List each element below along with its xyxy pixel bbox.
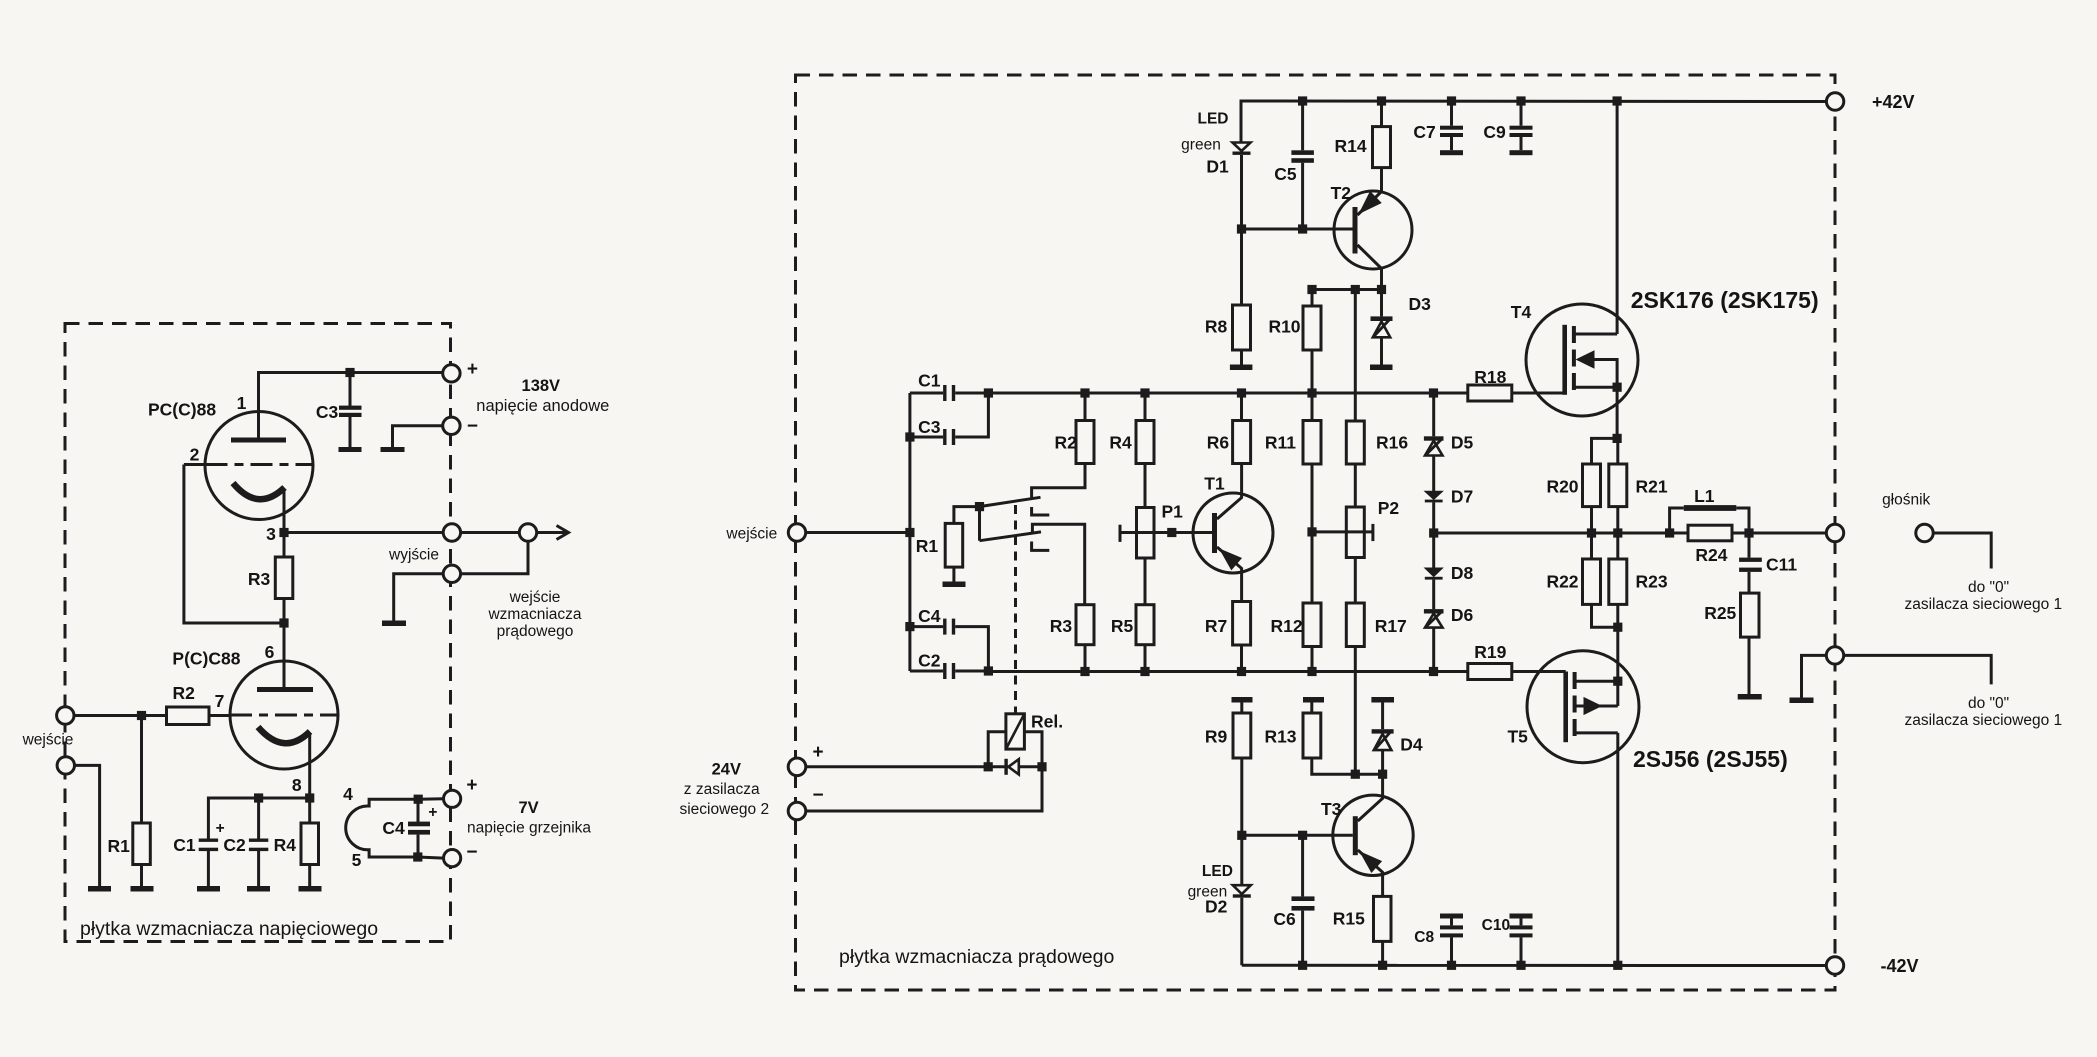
- transistor T2 collector diagonal: [1358, 245, 1382, 290]
- wire C7 lead 2: [1450, 137, 1453, 150]
- svg-text:R23: R23: [1636, 572, 1668, 592]
- svg-text:wejście: wejście: [725, 526, 777, 543]
- svg-text:5: 5: [352, 850, 362, 870]
- wire D2 bottom lead: [1240, 898, 1243, 966]
- capacitor C10 plate 2: [1510, 933, 1533, 937]
- wire upper bus to T4 gate: [1512, 392, 1565, 395]
- ground R4 left: [299, 886, 322, 892]
- relay actuator dashed link: [1014, 505, 1017, 714]
- svg-text:C3: C3: [918, 417, 941, 437]
- wire R8 top lead: [1240, 229, 1243, 305]
- wire T3 base: [1242, 834, 1353, 837]
- wire input to R2: [74, 714, 167, 717]
- wire R15 bottom lead: [1381, 941, 1384, 965]
- relay contact arm 1: [980, 497, 1041, 506]
- wire C4 left lead: [910, 625, 943, 628]
- node T4 source: [1613, 383, 1622, 392]
- diode D3 zener stroke: [1374, 320, 1390, 337]
- transistor T5 source connection: [1575, 680, 1618, 683]
- node input junction: [905, 528, 914, 537]
- ground R1 left: [131, 886, 154, 892]
- ground return: [382, 621, 406, 627]
- capacitor C3r plate 2: [952, 429, 955, 445]
- wire C8 lead: [1450, 919, 1453, 966]
- svg-text:R7: R7: [1205, 616, 1227, 636]
- svg-text:D5: D5: [1451, 433, 1474, 453]
- node R2 bus: [1080, 388, 1089, 397]
- resistor R5: [1136, 605, 1154, 645]
- wire do0 ground: [1802, 655, 1827, 698]
- wire R3 bottom: [1084, 645, 1087, 672]
- wire D8-D6: [1432, 580, 1435, 610]
- potentiometer P2 wiper bar: [1371, 524, 1374, 541]
- wire C9 lead 2: [1520, 137, 1523, 150]
- relay coil diagonal: [1006, 714, 1025, 749]
- svg-text:C3: C3: [316, 402, 339, 422]
- wire R3 top lead: [283, 533, 286, 558]
- capacitor C10 plate 1: [1510, 925, 1533, 929]
- svg-text:R4: R4: [274, 835, 297, 855]
- heater bracket pins 4-5: [346, 799, 419, 857]
- svg-text:C4: C4: [382, 818, 405, 838]
- svg-text:do "0": do "0": [1968, 695, 2009, 712]
- svg-text:R6: R6: [1207, 433, 1230, 453]
- capacitor C2 plate 1 (tube board): [249, 839, 268, 842]
- svg-text:zasilacza sieciowego 1: zasilacza sieciowego 1: [1904, 596, 2062, 613]
- node T5 source: [1613, 677, 1622, 686]
- wire pivot to arm 2: [978, 507, 981, 541]
- transistor T3 collector diagonal: [1358, 774, 1383, 821]
- node L1 right / C11: [1744, 528, 1753, 537]
- node R3 / V2 anode: [279, 618, 288, 627]
- node V1 anode / C3: [345, 368, 354, 377]
- terminal +42V: [1826, 93, 1843, 110]
- node R7 bus: [1237, 667, 1246, 676]
- wire contact 2 to R3: [1032, 524, 1084, 604]
- resistor R13: [1303, 713, 1321, 758]
- node C5 base wire: [1298, 224, 1307, 233]
- svg-text:−: −: [812, 785, 823, 806]
- wire R4 lead: [308, 798, 311, 823]
- wire lower bus to T5 gate: [1512, 670, 1566, 673]
- diode D5 zener stroke: [1426, 439, 1442, 455]
- wire T5 source up: [1616, 627, 1619, 681]
- resistor R1 (current board): [945, 523, 963, 567]
- diode D6 triangle: [1425, 614, 1443, 628]
- svg-text:R15: R15: [1333, 909, 1365, 929]
- wire C1 to ground: [207, 851, 210, 887]
- resistor R16: [1346, 421, 1364, 464]
- wire R1 column: [140, 716, 143, 824]
- resistor R25: [1741, 593, 1760, 637]
- wire input chain vertical: [908, 393, 911, 671]
- node diode chain output: [1429, 528, 1438, 537]
- wire C6 lead top: [1301, 835, 1304, 896]
- wire R20 bottom lead: [1590, 507, 1593, 533]
- svg-text:7: 7: [215, 691, 225, 711]
- transistor T4 channel bar dashed: [1572, 326, 1576, 396]
- LED D1 cathode bar: [1233, 152, 1251, 155]
- wire D5 top lead: [1432, 393, 1435, 436]
- node T2 collector / D3: [1377, 285, 1386, 294]
- svg-text:2SJ56 (2SJ55): 2SJ56 (2SJ55): [1633, 746, 1788, 772]
- capacitor C8 plate 1: [1440, 925, 1463, 929]
- svg-text:8: 8: [292, 775, 302, 795]
- wire C1 right lead: [955, 392, 988, 395]
- terminal 24V +: [788, 758, 806, 776]
- svg-text:R17: R17: [1375, 616, 1407, 636]
- wire V2 anode lead pin 6: [283, 623, 286, 688]
- wire upper bus: [988, 392, 1467, 395]
- svg-text:wzmacniacza: wzmacniacza: [487, 606, 581, 623]
- wire R6 top lead: [1240, 393, 1243, 421]
- wire R1 to ground: [140, 865, 143, 887]
- svg-text:R4: R4: [1109, 433, 1132, 453]
- wire C2 to ground: [257, 851, 260, 887]
- transistor T4 gate bar: [1562, 325, 1567, 395]
- svg-text:P(C)C88: P(C)C88: [172, 649, 240, 669]
- svg-text:+: +: [428, 804, 437, 821]
- wire do0 right: [1844, 655, 1992, 684]
- potentiometer P1 wiper bar: [1119, 525, 1122, 542]
- wire output/speaker line: [1434, 532, 1827, 535]
- wire node-D8: [1432, 533, 1435, 568]
- diode D6 zener stroke: [1426, 612, 1442, 628]
- svg-text:L1: L1: [1694, 486, 1715, 506]
- wire glosnik return: [1933, 533, 1991, 569]
- wire C5 top lead: [1301, 101, 1304, 150]
- svg-text:R10: R10: [1268, 317, 1300, 337]
- node heater minus: [413, 852, 422, 861]
- svg-text:R21: R21: [1636, 477, 1668, 497]
- node C2/C4 bus: [984, 666, 993, 675]
- capacitor C8 plate 2: [1440, 933, 1463, 937]
- node C10 rail: [1516, 961, 1525, 970]
- svg-text:+: +: [812, 742, 823, 763]
- wire C4 lead bottom: [417, 835, 420, 857]
- resistor R6: [1233, 421, 1251, 464]
- wire heater plus: [419, 797, 444, 800]
- svg-text:P1: P1: [1161, 502, 1183, 522]
- diode D4 zener bar: [1372, 729, 1394, 733]
- resistor R1 (tube board): [133, 823, 151, 865]
- svg-text:prądowego: prądowego: [497, 623, 574, 640]
- svg-text:R24: R24: [1695, 545, 1727, 565]
- LED D2 triangle: [1233, 885, 1251, 894]
- capacitor C4r plate 1: [943, 619, 946, 635]
- relay contact arm 2: [980, 532, 1042, 541]
- resistor R2 (current board): [1076, 421, 1094, 464]
- relay contact stub 1: [1032, 507, 1050, 515]
- node R5 bus: [1140, 667, 1149, 676]
- node R10 top corner: [1307, 285, 1316, 294]
- svg-text:4: 4: [343, 784, 353, 804]
- wire C4 lead top: [417, 799, 420, 822]
- wire 24V plus: [806, 765, 1042, 768]
- node R4 bus: [1140, 388, 1149, 397]
- relay flyback diode cathode bar: [1004, 759, 1007, 775]
- capacitor C2 plate 2 (tube board): [249, 848, 268, 851]
- terminal glosnik return: [1916, 524, 1933, 541]
- node C9 rail: [1516, 96, 1525, 105]
- svg-text:D8: D8: [1451, 563, 1474, 583]
- svg-text:R20: R20: [1546, 477, 1578, 497]
- diode D3 zener bar: [1371, 316, 1393, 321]
- wire input to chain: [806, 531, 910, 534]
- svg-text:R19: R19: [1474, 642, 1506, 662]
- svg-text:R18: R18: [1474, 367, 1506, 387]
- node C5 rail: [1298, 96, 1307, 105]
- resistor R2 (tube board): [167, 707, 210, 725]
- capacitor C5 plate 2: [1291, 158, 1314, 163]
- diode D5 zener bar: [1424, 436, 1444, 440]
- terminal heater +: [444, 790, 461, 807]
- svg-text:T2: T2: [1331, 183, 1352, 203]
- tube V1 cathode arc: [233, 483, 285, 499]
- transistor T5 drain connection: [1575, 731, 1618, 734]
- wire R4-P1-R5 column: [1144, 393, 1147, 672]
- resistor R17: [1346, 603, 1364, 647]
- tube V1 grid dashes: [206, 463, 314, 466]
- svg-text:głośnik: głośnik: [1882, 492, 1930, 509]
- wire +42V rail: [1241, 101, 1826, 143]
- svg-text:napięcie anodowe: napięcie anodowe: [476, 397, 609, 415]
- svg-text:R5: R5: [1111, 616, 1134, 636]
- svg-text:zasilacza sieciowego 1: zasilacza sieciowego 1: [1904, 712, 2062, 729]
- svg-text:C11: C11: [1766, 555, 1797, 575]
- wire R23 leads: [1616, 533, 1619, 627]
- svg-text:płytka wzmacniacza napięcioweg: płytka wzmacniacza napięciowego: [80, 918, 378, 940]
- wire V1 grid pin 2 stub: [184, 463, 206, 466]
- wire C2 left lead: [910, 670, 943, 673]
- tube V1 PC(C)88 envelope: [205, 412, 313, 520]
- node C4 left: [905, 622, 914, 631]
- node R22/R23 bottom: [1613, 623, 1622, 632]
- wire R8 bottom lead: [1240, 350, 1243, 365]
- capacitor C11 plate 2: [1739, 568, 1762, 572]
- wire R25 to ground: [1748, 637, 1751, 694]
- node R3 bus: [1080, 667, 1089, 676]
- wire C3 lead top: [349, 373, 352, 407]
- svg-text:płytka wzmacniacza prądowego: płytka wzmacniacza prądowego: [839, 946, 1114, 968]
- node R21 output line: [1613, 528, 1622, 537]
- capacitor C1 plate 2 (tube board): [199, 848, 218, 851]
- resistor R19: [1468, 664, 1512, 680]
- svg-text:C10: C10: [1482, 917, 1510, 934]
- node C6 rail: [1298, 961, 1307, 970]
- svg-text:D1: D1: [1206, 157, 1229, 177]
- terminal wejscie (current board): [788, 524, 805, 541]
- resistor R10: [1303, 306, 1321, 350]
- transistor T5 body connection: [1575, 681, 1618, 706]
- capacitor C1 plate 1: [943, 385, 946, 401]
- wire T4 source down: [1616, 387, 1619, 438]
- resistor R22: [1583, 559, 1601, 604]
- wire R10/R16/D3 node: [1312, 290, 1382, 307]
- tube V1 anode plate: [231, 438, 286, 443]
- relay coil lead right: [1024, 732, 1042, 767]
- svg-text:R25: R25: [1704, 603, 1736, 623]
- capacitor C2r plate 1: [943, 663, 946, 679]
- svg-text:R9: R9: [1205, 727, 1228, 747]
- resistor R11: [1303, 421, 1321, 465]
- svg-text:green: green: [1181, 137, 1221, 154]
- capacitor C6 plate 2: [1292, 906, 1315, 911]
- wire C5 bottom lead: [1301, 163, 1304, 229]
- wire return terminal left to ground: [394, 574, 444, 621]
- terminal return from current amp: [443, 565, 460, 582]
- wire D3 bottom lead: [1380, 337, 1383, 364]
- wire feedback pin2: [184, 465, 284, 624]
- svg-text:D2: D2: [1205, 897, 1228, 917]
- svg-text:-42V: -42V: [1881, 956, 1919, 976]
- wire C6 lead bottom: [1301, 911, 1304, 966]
- wire R14 to T2 emitter: [1380, 168, 1383, 192]
- wire D2 top lead: [1240, 835, 1243, 885]
- svg-text:−: −: [467, 416, 478, 437]
- ground R25: [1738, 694, 1762, 700]
- wire R2 to grid pin 7: [209, 714, 230, 717]
- svg-text:wejście: wejście: [22, 732, 74, 749]
- svg-text:R3: R3: [1050, 616, 1073, 636]
- node R11 bus: [1307, 388, 1316, 397]
- terminal to current amp: [519, 524, 536, 541]
- current amplifier board dashed outline: [796, 75, 1836, 990]
- diode D4 zener stroke: [1375, 732, 1391, 750]
- svg-text:138V: 138V: [522, 377, 561, 395]
- wire R10 bottom lead: [1311, 350, 1314, 393]
- wire C4 right lead: [955, 627, 988, 671]
- transistor T1 emitter arrow: [1220, 549, 1241, 569]
- wire T2 base: [1242, 228, 1353, 231]
- svg-text:R11: R11: [1265, 433, 1296, 453]
- svg-text:LED: LED: [1198, 111, 1229, 128]
- svg-text:PC(C)88: PC(C)88: [148, 400, 216, 420]
- node C7 rail: [1447, 96, 1456, 105]
- transistor T4 envelope: [1526, 304, 1638, 416]
- ground C2 left: [247, 886, 270, 892]
- node R17/T3 line: [1351, 770, 1360, 779]
- inductor L1 loop: [1670, 508, 1749, 533]
- wire R11-R12 column: [1311, 393, 1314, 672]
- node heater plus: [414, 795, 423, 804]
- wire R7 bottom lead: [1240, 645, 1243, 672]
- svg-text:3: 3: [266, 524, 276, 544]
- terminal wyjscie: [443, 524, 460, 541]
- node T5 drain rail: [1613, 961, 1622, 970]
- wire D7-node: [1432, 502, 1435, 533]
- node R12 bus: [1307, 667, 1316, 676]
- diode D7 bar: [1425, 500, 1443, 503]
- node D4/T3 collector: [1378, 770, 1387, 779]
- node C6 base: [1298, 831, 1307, 840]
- svg-text:Rel.: Rel.: [1031, 712, 1063, 732]
- terminator C7: [1440, 150, 1463, 155]
- svg-text:R3: R3: [248, 569, 271, 589]
- capacitor C1 plate 2: [952, 385, 955, 401]
- node T4 drain rail: [1613, 96, 1622, 105]
- terminal -138V: [443, 417, 460, 434]
- svg-text:C2: C2: [918, 651, 941, 671]
- node C8 rail: [1447, 961, 1456, 970]
- node R16 column top: [1351, 285, 1360, 294]
- ground C3: [339, 447, 362, 452]
- inductor L1 winding bar: [1684, 505, 1737, 511]
- ground anode minus: [381, 447, 405, 452]
- svg-text:R16: R16: [1376, 433, 1408, 453]
- svg-text:D3: D3: [1409, 294, 1432, 314]
- capacitor C9 plate 2: [1510, 133, 1533, 137]
- resistor R18: [1468, 385, 1512, 401]
- capacitor C5 plate 1: [1291, 150, 1314, 155]
- node L1 left: [1665, 528, 1674, 537]
- svg-text:P2: P2: [1378, 498, 1400, 518]
- svg-text:R22: R22: [1546, 572, 1578, 592]
- svg-text:T4: T4: [1511, 302, 1532, 322]
- ground do0: [1790, 698, 1814, 704]
- svg-text:2SK176 (2SK175): 2SK176 (2SK175): [1631, 287, 1819, 313]
- svg-text:sieciowego 2: sieciowego 2: [679, 801, 769, 818]
- node D5 bus: [1429, 388, 1438, 397]
- wire C10 lead: [1520, 919, 1523, 966]
- node R20/R21 top: [1613, 434, 1622, 443]
- transistor T2 envelope: [1334, 191, 1412, 269]
- transistor T2 emitter diagonal: [1358, 192, 1382, 216]
- node R20 output line: [1587, 528, 1596, 537]
- wire D4 top lead: [1381, 703, 1384, 730]
- wire C11 top lead: [1748, 533, 1751, 558]
- resistor R23: [1609, 559, 1627, 604]
- resistor R9: [1233, 713, 1251, 758]
- diode D4 triangle: [1374, 734, 1392, 750]
- transistor T5 envelope: [1527, 651, 1639, 763]
- transistor T2 emitter arrow: [1360, 192, 1381, 213]
- wire output node to wyjscie terminal: [284, 531, 443, 534]
- svg-text:6: 6: [265, 642, 275, 662]
- svg-text:24V: 24V: [712, 761, 741, 779]
- tube V2 grid dashes: [230, 714, 338, 717]
- svg-text:C7: C7: [1413, 122, 1435, 142]
- svg-text:+: +: [467, 359, 478, 380]
- node relay pivot: [975, 502, 984, 511]
- ground C1 left: [197, 886, 220, 892]
- svg-text:napięcie grzejnika: napięcie grzejnika: [467, 820, 591, 837]
- terminal glosnik: [1826, 524, 1843, 541]
- wire input2 to ground: [75, 765, 100, 886]
- terminator R8: [1230, 365, 1253, 371]
- potentiometer P1 body: [1137, 508, 1155, 559]
- capacitor C9 plate 1: [1510, 126, 1533, 130]
- voltage amplifier board dashed outline: [65, 324, 451, 942]
- wire R16-P2-R17 column: [1354, 290, 1357, 775]
- wire C3 lead bottom: [349, 417, 352, 448]
- wire C9 lead: [1520, 101, 1523, 126]
- capacitor C3r plate 1: [943, 429, 946, 445]
- wire output arrow: [537, 531, 567, 534]
- transistor T4 body arrow: [1577, 351, 1594, 368]
- svg-text:T1: T1: [1204, 474, 1225, 494]
- transistor T3 envelope: [1333, 795, 1413, 875]
- wire C11-R25: [1748, 572, 1751, 593]
- svg-text:2: 2: [190, 445, 200, 465]
- capacitor C11 plate 1: [1739, 558, 1762, 562]
- terminator R9 top: [1232, 697, 1253, 703]
- svg-text:LED: LED: [1202, 863, 1233, 880]
- terminator C9: [1510, 150, 1533, 155]
- terminator C8 top: [1440, 914, 1463, 919]
- svg-text:7V: 7V: [519, 799, 539, 817]
- transistor T3 emitter diagonal: [1358, 850, 1383, 896]
